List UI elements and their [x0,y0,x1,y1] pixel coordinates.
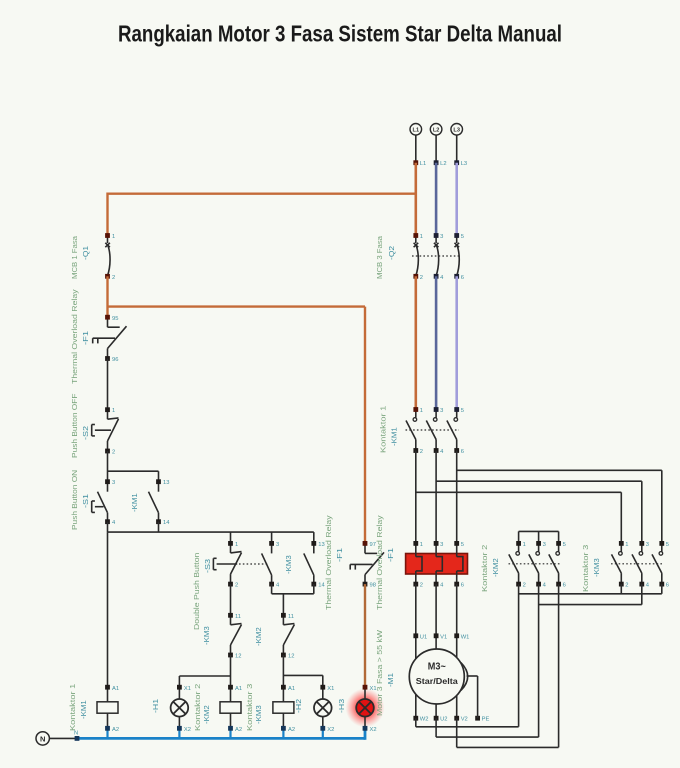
svg-text:5: 5 [563,542,566,548]
svg-text:A2: A2 [112,727,119,733]
wire KM2 A2 to neutral bus [228,726,233,739]
wire branch L1 to KM3 pin 1 [416,492,622,543]
wire L1 drop [415,135,417,163]
svg-text:-S3: -S3 [203,559,212,573]
svg-text:X2: X2 [327,727,334,733]
svg-text:A2: A2 [235,727,242,733]
wire KM3 A2 to neutral bus [281,726,286,739]
svg-text:N: N [40,734,45,743]
wire L1 control feed top horizontal [108,192,416,194]
svg-text:U1: U1 [420,634,427,640]
svg-text:6: 6 [461,583,464,589]
svg-text:-H1: -H1 [151,699,160,713]
svg-text:-F1: -F1 [81,331,90,345]
svg-text:A1: A1 [235,686,242,692]
wire bus drop to KM3 aux pin 13 [313,532,315,543]
svg-text:3: 3 [276,542,279,548]
contactor KM1 main contacts pins 1-6 [406,407,464,455]
svg-text:3: 3 [440,542,443,548]
svg-text:V2: V2 [461,717,468,723]
supply terminal L1 [410,124,422,136]
svg-text:2: 2 [420,583,423,589]
svg-text:-F1: -F1 [386,548,395,562]
svg-text:Kontaktor 2: Kontaktor 2 [193,684,202,731]
KM3 auxiliary holding contact pins 13,14 [304,541,326,589]
svg-text:-KM2: -KM2 [202,705,211,724]
svg-text:A1: A1 [288,686,295,692]
svg-text:Thermal Overload Relay: Thermal Overload Relay [324,515,333,610]
svg-text:1: 1 [112,408,115,414]
wire KM2 interlock to coil KM3 [282,655,284,687]
node L2 terminal [434,160,439,165]
svg-text:96: 96 [112,357,118,363]
svg-text:1: 1 [112,234,115,240]
node H3 X2 on bus [363,726,368,731]
svg-text:5: 5 [461,408,464,414]
push button ON S1 pins 3,4 [92,479,116,526]
svg-text:Thermal Overload Relay: Thermal Overload Relay [375,515,384,610]
svg-text:Motor 3 Fasa > 55 kW: Motor 3 Fasa > 55 kW [375,629,384,716]
svg-text:L3: L3 [453,128,460,134]
wire branch L2 to KM3 pin 3 [436,481,642,543]
wire S3 NC pole down to KM3 interlock [230,584,232,615]
svg-text:-M1: -M1 [386,673,395,687]
wire KM1 out L1 to F1 [415,451,417,544]
wire S2 to node 3 [107,451,109,482]
supply terminal N [36,732,49,745]
svg-text:11: 11 [288,614,294,620]
supply terminal L3 [451,124,463,136]
wire branch L3 to KM3 pin 5 [457,470,662,543]
red pilot lamp H3 pins X1,X2 [346,685,385,733]
wire Q2 to KM1 L1 orange [414,276,417,409]
wire KM1 aux to control bus [158,522,160,532]
svg-text:6: 6 [461,275,464,281]
wire KM2 pin 2 column down [518,584,520,727]
svg-text:2: 2 [625,583,628,589]
KM3 NC interlock contact pins 11,12 [228,613,241,660]
svg-text:A1: A1 [112,686,119,692]
contactor coil KM2 pins A1,A2 [220,685,242,733]
svg-text:6: 6 [666,583,669,589]
wire bus drop to S3 pin 3 [271,532,273,543]
wire H1 X2 to neutral bus [177,726,182,739]
svg-text:W1: W1 [461,634,470,640]
svg-text:-H3: -H3 [337,699,346,713]
wire KM1 aux branch drop [158,471,160,482]
svg-text:3: 3 [112,480,115,486]
wire Q2 to KM1 L3 lavender [455,276,458,409]
svg-text:Double Push Button: Double Push Button [192,553,201,630]
svg-text:L3: L3 [461,161,467,167]
svg-text:1: 1 [235,542,238,548]
svg-text:Kontaktor 2: Kontaktor 2 [480,545,489,592]
KM1 auxiliary holding contact pins 13,14 [149,479,171,526]
svg-text:-KM2: -KM2 [254,627,263,646]
svg-text:1: 1 [420,542,423,548]
svg-text:Kontaktor 3: Kontaktor 3 [245,684,254,731]
wire motor W2 to KM2 column [416,718,519,727]
svg-text:W2: W2 [420,717,429,723]
svg-text:V1: V1 [440,634,447,640]
svg-text:-KM3: -KM3 [254,705,263,724]
wire KM2 pin 6 column down [558,584,560,747]
wire KM1 out L3 to F1 [456,451,458,544]
contactor KM3 delta contacts pins 1-6 [611,541,669,589]
wire KM2 pin 4 column down [538,584,540,737]
svg-text:N: N [74,731,78,737]
svg-text:3: 3 [646,542,649,548]
svg-text:12: 12 [288,654,294,660]
wire lamp H1 branch [179,676,230,687]
svg-text:X1: X1 [327,686,334,692]
wire L3 drop [456,135,458,163]
MCB Q2 (MCB 3 Fasa -Q2) pins 1-6 [412,233,464,281]
svg-text:MCB 3 Fasa: MCB 3 Fasa [375,235,384,279]
svg-text:X2: X2 [370,727,377,733]
wire neutral bus blue [77,728,365,740]
wire control branch to F1 aux horizontal [108,305,366,307]
svg-text:-KM1: -KM1 [130,493,139,512]
svg-text:95: 95 [112,316,118,322]
thermal overload relay contact F1 pins 95,96 [93,315,127,363]
wire rail orange Q1 to node 95 [106,276,108,317]
svg-text:-Q2: -Q2 [387,246,396,260]
indicator lamp H2 pins X1,X2 [314,685,334,733]
svg-text:Kontaktor 3: Kontaktor 3 [581,545,590,592]
contactor KM2 star contacts pins 1-6 [509,541,566,589]
wire orange drop to F1 aux contact [364,307,366,544]
svg-text:1: 1 [420,408,423,414]
wire N terminal to bus [49,737,77,739]
wire phase L1 orange [414,163,417,236]
svg-text:2: 2 [523,583,526,589]
svg-text:-H2: -H2 [294,699,303,713]
wire control rail orange segment to MCB Q1 [106,193,108,236]
svg-text:2: 2 [112,450,115,456]
wire lamp H2 branch [283,675,322,687]
wire H2 X2 to neutral bus [320,726,325,739]
wire F1 to motor W1 [456,584,458,718]
wire motor U2 to KM2 column [436,718,538,737]
wire orange F1 aux to lamp H3 [364,584,366,687]
svg-text:Rangkaian Motor 3 Fasa Sistem: Rangkaian Motor 3 Fasa Sistem Star Delta… [118,21,562,47]
svg-text:-KM3: -KM3 [284,555,293,574]
svg-text:-KM3: -KM3 [592,558,601,577]
wire L2 drop [435,135,437,163]
node L1 terminal [413,160,418,165]
svg-text:PE: PE [482,717,490,723]
svg-text:L2: L2 [440,161,446,167]
svg-text:-Q1: -Q1 [81,246,90,260]
wire F1 to motor U1 [415,584,417,718]
svg-text:3: 3 [543,542,546,548]
svg-text:3: 3 [440,234,443,240]
svg-text:Thermal Overload Relay: Thermal Overload Relay [70,289,79,384]
thermal overload relay aux contact F1 pins 97,98 [350,541,384,589]
svg-text:13: 13 [163,480,169,486]
svg-text:5: 5 [666,542,669,548]
wire KM3 pins 2,6 link to W2 column [519,584,662,594]
svg-text:L2: L2 [433,128,440,134]
wire KM3 pin 4 link to U2 column [539,584,642,605]
svg-text:-F1: -F1 [335,548,344,562]
wire S1 to control bus [107,522,109,532]
svg-text:1: 1 [625,542,628,548]
MCB Q1 (MCB 1 Fasa -Q1) pole with pins 1,2 [105,233,115,281]
svg-text:L1: L1 [413,128,420,134]
svg-text:Star/Delta: Star/Delta [416,677,458,686]
double push button S3 pins 1,2,3,4 [213,541,280,589]
svg-text:-KM2: -KM2 [491,558,500,577]
svg-text:X1: X1 [184,686,191,692]
svg-text:X2: X2 [184,727,191,733]
thermal overload relay F1 power block pins 1-6 [406,541,468,589]
svg-text:1: 1 [420,234,423,240]
wire phase L3 lavender [455,163,458,236]
svg-text:6: 6 [461,449,464,455]
svg-text:A2: A2 [288,727,295,733]
wire S3 NO pole and KM3 aux merge to KM2 interlock [272,584,314,615]
svg-text:2: 2 [235,583,238,589]
svg-text:2: 2 [420,275,423,281]
svg-text:2: 2 [420,449,423,455]
svg-text:Kontaktor 1: Kontaktor 1 [379,406,388,453]
push button OFF S2 pins 1,2 [92,407,119,455]
svg-text:12: 12 [235,654,241,660]
node N junction [75,736,80,741]
motor M1 (M3~ Star/Delta) pins U1,V1,W1,W2,U2,V2,PE [409,633,489,722]
svg-text:Push Button OFF: Push Button OFF [70,393,79,458]
svg-text:-S1: -S1 [81,494,90,508]
wire motor V2 to KM2 column [457,718,559,747]
wire KM2 star bridge [519,531,559,543]
svg-text:M3~: M3~ [428,661,446,673]
indicator lamp H1 pins X1,X2 [171,685,191,733]
svg-text:1: 1 [523,542,526,548]
svg-text:Push Button ON: Push Button ON [70,470,79,530]
svg-text:2: 2 [112,275,115,281]
svg-text:14: 14 [163,520,170,526]
svg-text:-KM1: -KM1 [79,700,88,719]
wire KM1 A2 to neutral bus [105,726,110,739]
svg-text:6: 6 [563,583,566,589]
contactor coil KM3 pins A1,A2 [273,685,295,733]
svg-text:-KM1: -KM1 [390,427,399,446]
svg-text:Kontaktor 1: Kontaktor 1 [68,684,77,731]
svg-text:-KM3: -KM3 [202,626,211,645]
supply terminal L2 [430,124,442,136]
svg-text:5: 5 [461,542,464,548]
svg-text:L1: L1 [420,161,426,167]
wire bus drop to S3 pin 1 [230,532,232,543]
svg-text:U2: U2 [440,717,447,723]
wire phase L2 navy [435,163,438,236]
wire control rail down to coil KM1 [107,532,109,687]
wire node 96 to push button OFF S2 [107,359,109,410]
wire branch to KM1 aux horizontal [108,470,159,472]
svg-text:5: 5 [461,234,464,240]
svg-text:-S2: -S2 [81,426,90,440]
wire Q2 to KM1 L2 navy [435,276,438,409]
svg-text:MCB 1 Fasa: MCB 1 Fasa [70,235,79,279]
svg-text:11: 11 [235,614,241,620]
wire F1 to motor V1 [435,584,437,718]
node L3 terminal [454,160,459,165]
contactor coil KM1 pins A1,A2 [97,685,119,733]
wire motor PE [467,676,478,718]
KM2 NC interlock contact pins 11,12 [281,613,294,660]
svg-text:3: 3 [440,408,443,414]
wire KM3 interlock to coil KM2 [230,655,232,687]
wire KM1 out L2 to F1 [435,451,437,544]
wire control bus horizontal [108,531,314,533]
